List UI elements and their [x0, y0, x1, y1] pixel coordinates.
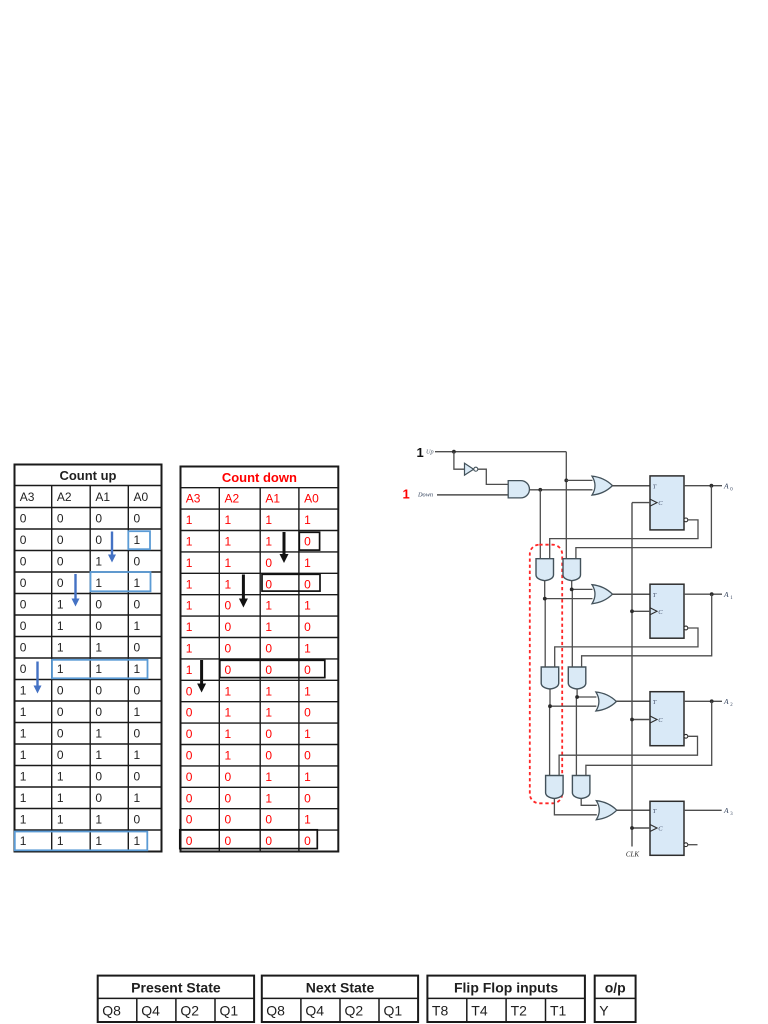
svg-text:0: 0: [134, 770, 141, 784]
junction P2 output: [575, 695, 579, 699]
svg-text:1: 1: [20, 748, 27, 762]
svg-text:1: 1: [20, 770, 27, 784]
wire FF2 Q output: [684, 700, 722, 702]
svg-text:1: 1: [265, 684, 272, 698]
wire inverter output to AND gate: [478, 469, 508, 484]
svg-text:2: 2: [730, 703, 733, 708]
wire CLK vertical: [631, 503, 633, 847]
wire D2 output chain: [549, 689, 551, 776]
svg-text:1: 1: [304, 684, 311, 698]
svg-text:T: T: [653, 808, 657, 815]
svg-text:0: 0: [225, 620, 232, 634]
svg-text:0: 0: [265, 663, 272, 677]
AND gate D2 (down chain, stage 2): [541, 667, 559, 689]
svg-text:3: 3: [730, 812, 733, 817]
wire O3 to FF2 T: [616, 700, 650, 702]
svg-text:1: 1: [134, 662, 141, 676]
svg-text:C: C: [658, 826, 663, 833]
OR gate O2 (T input A1): [592, 585, 613, 604]
AND gate D3 (down chain, stage 3): [546, 776, 564, 799]
svg-text:1: 1: [20, 834, 27, 848]
junction CLK FF1: [630, 609, 634, 613]
wire O1 to FF0 T: [612, 485, 650, 487]
svg-text:0: 0: [265, 834, 272, 848]
wire Up input horizontal: [435, 451, 566, 453]
wire O4 to FF3 T: [617, 809, 650, 811]
svg-text:CLK: CLK: [626, 851, 640, 859]
svg-text:0: 0: [225, 599, 232, 613]
svg-text:0: 0: [265, 642, 272, 656]
svg-text:0: 0: [95, 770, 102, 784]
svg-text:1: 1: [403, 487, 410, 502]
svg-text:0: 0: [186, 791, 193, 805]
svg-text:1: 1: [225, 684, 232, 698]
wire P2 to OR O3 top input: [577, 696, 596, 698]
AND gate P2 (up chain, stage 2): [568, 667, 586, 689]
svg-text:0: 0: [730, 487, 733, 492]
count up highlight box row0011 A1-A0: [91, 572, 151, 591]
svg-text:1: 1: [186, 642, 193, 656]
svg-text:0: 0: [57, 727, 64, 741]
wire P2 output chain: [575, 689, 578, 776]
svg-text:0: 0: [134, 598, 141, 612]
svg-text:Down: Down: [417, 492, 433, 499]
svg-text:0: 0: [134, 684, 141, 698]
wire Up to OR O1 top input: [566, 479, 592, 481]
svg-text:1: 1: [57, 598, 64, 612]
svg-text:1: 1: [265, 791, 272, 805]
svg-text:1: 1: [304, 642, 311, 656]
svg-text:1: 1: [134, 791, 141, 805]
svg-text:1: 1: [57, 834, 64, 848]
svg-text:0: 0: [20, 576, 27, 590]
svg-text:1: 1: [225, 535, 232, 549]
svg-text:A3: A3: [186, 492, 201, 506]
inverter (Up complement): [465, 463, 478, 475]
svg-text:0: 0: [186, 813, 193, 827]
svg-text:A1: A1: [95, 490, 110, 504]
svg-text:0: 0: [265, 813, 272, 827]
svg-text:0: 0: [57, 684, 64, 698]
svg-text:1: 1: [265, 620, 272, 634]
svg-text:0: 0: [20, 512, 27, 526]
svg-text:1: 1: [134, 533, 141, 547]
svg-text:Q1: Q1: [220, 1002, 239, 1018]
svg-text:1: 1: [95, 576, 102, 590]
svg-text:0: 0: [95, 598, 102, 612]
svg-text:0: 0: [225, 813, 232, 827]
svg-text:1: 1: [20, 791, 27, 805]
svg-text:A0: A0: [134, 490, 149, 504]
wire P1 output chain: [571, 580, 574, 667]
svg-text:0: 0: [95, 512, 102, 526]
junction Up to inverter: [452, 450, 456, 454]
svg-text:1: 1: [265, 706, 272, 720]
wire D3 output to OR O4 bottom: [554, 799, 596, 815]
wire CLK to FF0 C: [632, 502, 650, 504]
svg-text:Next State: Next State: [306, 979, 375, 995]
AND gate P3 (up chain, stage 3): [572, 776, 590, 799]
svg-text:1: 1: [95, 727, 102, 741]
svg-text:A0: A0: [304, 492, 319, 506]
svg-text:C: C: [658, 609, 663, 616]
svg-text:0: 0: [304, 706, 311, 720]
count down highlight box row0000: [180, 830, 317, 849]
svg-text:o/p: o/p: [605, 979, 626, 995]
svg-text:1: 1: [57, 619, 64, 633]
AND gate D1 (down chain, stage 1): [536, 559, 554, 581]
svg-text:A: A: [723, 806, 729, 815]
svg-text:0: 0: [57, 748, 64, 762]
svg-text:Q8: Q8: [102, 1002, 121, 1018]
svg-text:1: 1: [20, 684, 27, 698]
svg-text:Flip Flop inputs: Flip Flop inputs: [454, 979, 558, 995]
svg-text:1: 1: [95, 662, 102, 676]
svg-text:1: 1: [134, 834, 141, 848]
svg-text:T8: T8: [432, 1002, 449, 1018]
svg-text:T: T: [653, 483, 657, 490]
junction D2 output: [548, 704, 552, 708]
wire FF3 Qbar stub: [688, 844, 698, 846]
svg-text:T2: T2: [511, 1002, 528, 1018]
count down arrow 3: [197, 660, 206, 693]
svg-text:Q2: Q2: [180, 1002, 199, 1018]
bottom table: output: [595, 976, 636, 1022]
svg-text:1: 1: [225, 577, 232, 591]
svg-text:1: 1: [20, 813, 27, 827]
svg-text:0: 0: [265, 727, 272, 741]
svg-text:Up: Up: [426, 449, 434, 456]
wire CLK to FF2 C: [632, 719, 650, 721]
count down arrow 2: [239, 575, 248, 608]
svg-text:1: 1: [20, 705, 27, 719]
svg-text:T4: T4: [471, 1002, 488, 1018]
wire CLK to FF1 C: [632, 610, 650, 612]
count down arrow 1: [280, 532, 289, 563]
svg-text:0: 0: [186, 770, 193, 784]
svg-text:0: 0: [57, 512, 64, 526]
svg-text:1: 1: [225, 513, 232, 527]
wire O2 to FF1 T: [612, 593, 650, 595]
svg-text:0: 0: [20, 619, 27, 633]
svg-text:0: 0: [20, 555, 27, 569]
svg-text:0: 0: [225, 642, 232, 656]
wire D1 output chain: [544, 580, 547, 667]
svg-text:0: 0: [186, 727, 193, 741]
bottom table: Flip Flop inputs: [427, 976, 585, 1022]
wire A2 complement feedback to down-chain AND: [559, 736, 697, 775]
svg-text:1: 1: [304, 727, 311, 741]
junction A2 output: [710, 699, 714, 703]
svg-text:0: 0: [304, 749, 311, 763]
AND gate U1 (Up&#39;&#183;Down): [508, 481, 529, 498]
svg-text:Present State: Present State: [131, 979, 221, 995]
svg-text:C: C: [658, 500, 663, 507]
svg-text:0: 0: [95, 533, 102, 547]
wire A2 feedback to up-chain AND: [586, 701, 712, 775]
svg-text:A1: A1: [265, 492, 280, 506]
svg-text:0: 0: [134, 641, 141, 655]
svg-text:0: 0: [304, 791, 311, 805]
svg-text:0: 0: [20, 598, 27, 612]
wire A1 feedback to up-chain AND: [582, 594, 712, 667]
svg-text:1: 1: [95, 834, 102, 848]
svg-text:1: 1: [186, 599, 193, 613]
T flip-flop FF3: [650, 801, 688, 855]
svg-text:A: A: [723, 697, 729, 706]
svg-text:T1: T1: [550, 1002, 567, 1018]
count down highlight box row1000 A2-A0: [220, 660, 325, 677]
svg-text:1: 1: [417, 445, 424, 460]
svg-text:1: 1: [57, 770, 64, 784]
bottom table: Next State: [262, 976, 418, 1022]
svg-text:A: A: [723, 590, 729, 599]
T flip-flop FF2: [650, 692, 688, 746]
svg-text:0: 0: [57, 555, 64, 569]
svg-text:A2: A2: [57, 490, 72, 504]
svg-text:1: 1: [730, 596, 733, 601]
svg-text:0: 0: [225, 770, 232, 784]
wire down-chain U1 to AND D1: [539, 490, 541, 559]
wire P3 output to OR O4 top: [581, 799, 597, 806]
svg-text:Q8: Q8: [266, 1002, 285, 1018]
svg-text:0: 0: [95, 705, 102, 719]
wire D1 to OR O2 bottom input: [545, 598, 593, 600]
svg-text:A3: A3: [20, 490, 35, 504]
svg-text:0: 0: [186, 706, 193, 720]
svg-text:0: 0: [134, 555, 141, 569]
count up table grid: [15, 465, 162, 852]
count down table grid: [181, 467, 339, 852]
count up arrow 1: [108, 532, 116, 563]
count up arrow 3: [34, 662, 42, 694]
svg-text:1: 1: [265, 599, 272, 613]
junction A0 output: [710, 484, 714, 488]
svg-text:0: 0: [95, 684, 102, 698]
svg-text:1: 1: [134, 705, 141, 719]
svg-text:0: 0: [304, 620, 311, 634]
OR gate O3 (T input A2): [596, 692, 617, 711]
svg-text:Q4: Q4: [305, 1002, 324, 1018]
svg-text:0: 0: [95, 619, 102, 633]
svg-text:1: 1: [186, 663, 193, 677]
svg-text:Y: Y: [599, 1002, 609, 1018]
svg-text:0: 0: [186, 749, 193, 763]
count up arrow 2: [72, 574, 80, 607]
svg-text:0: 0: [134, 727, 141, 741]
svg-text:0: 0: [57, 533, 64, 547]
wire FF1 Q output: [684, 593, 722, 595]
svg-text:1: 1: [304, 599, 311, 613]
count up highlight box row1111: [15, 832, 148, 851]
svg-text:0: 0: [186, 834, 193, 848]
svg-text:1: 1: [20, 727, 27, 741]
svg-text:1: 1: [95, 555, 102, 569]
svg-text:1: 1: [57, 662, 64, 676]
svg-text:0: 0: [20, 533, 27, 547]
svg-text:0: 0: [265, 577, 272, 591]
red dashed group (down-chain AND gates): [530, 545, 562, 804]
svg-text:0: 0: [20, 662, 27, 676]
svg-text:1: 1: [225, 727, 232, 741]
count up highlight box row0111 A2-A0: [52, 660, 148, 679]
svg-text:0: 0: [304, 535, 311, 549]
junction CLK FF3: [630, 826, 634, 830]
svg-text:1: 1: [95, 748, 102, 762]
svg-text:Q2: Q2: [345, 1002, 364, 1018]
svg-text:0: 0: [265, 556, 272, 570]
svg-text:0: 0: [57, 576, 64, 590]
svg-text:0: 0: [304, 577, 311, 591]
svg-text:1: 1: [134, 619, 141, 633]
svg-text:T: T: [653, 592, 657, 599]
svg-text:1: 1: [265, 513, 272, 527]
svg-text:1: 1: [57, 791, 64, 805]
svg-text:Count up: Count up: [59, 468, 116, 483]
svg-text:1: 1: [95, 641, 102, 655]
svg-text:1: 1: [186, 577, 193, 591]
wire FF3 Q output: [684, 809, 722, 811]
svg-text:1: 1: [225, 556, 232, 570]
svg-text:0: 0: [265, 749, 272, 763]
svg-text:1: 1: [186, 556, 193, 570]
svg-text:1: 1: [265, 535, 272, 549]
junction A1 output: [710, 592, 714, 596]
svg-text:0: 0: [95, 791, 102, 805]
junction P1 output: [570, 588, 574, 592]
OR gate O1 (T input A0): [592, 476, 613, 495]
svg-text:A2: A2: [225, 492, 240, 506]
svg-text:1: 1: [304, 513, 311, 527]
junction U1 output down-chain: [538, 488, 542, 492]
svg-text:A: A: [723, 481, 729, 490]
svg-text:1: 1: [186, 620, 193, 634]
wire U1 output to OR gate O1: [529, 489, 592, 491]
wire D2 to OR O3 bottom input: [550, 705, 596, 707]
svg-text:Count down: Count down: [222, 470, 297, 485]
svg-text:0: 0: [134, 512, 141, 526]
svg-text:1: 1: [265, 770, 272, 784]
svg-text:0: 0: [225, 663, 232, 677]
wire FF0 Q output: [684, 485, 722, 487]
svg-text:1: 1: [186, 513, 193, 527]
svg-text:1: 1: [225, 706, 232, 720]
svg-text:1: 1: [304, 770, 311, 784]
junction Up to OR O1: [564, 479, 568, 483]
svg-text:1: 1: [225, 749, 232, 763]
wire A0 complement feedback to down-chain AND: [550, 520, 698, 558]
svg-text:T: T: [653, 699, 657, 706]
svg-text:0: 0: [225, 834, 232, 848]
wire P1 to OR O2 top input: [572, 588, 593, 590]
wire Up vertical to AND P1: [565, 452, 567, 559]
svg-text:1: 1: [57, 813, 64, 827]
count down highlight box row1100 A1-A0: [262, 574, 320, 591]
svg-text:0: 0: [134, 813, 141, 827]
svg-text:1: 1: [57, 641, 64, 655]
bottom table: Present State: [98, 976, 254, 1022]
svg-text:0: 0: [20, 641, 27, 655]
OR gate O4 (T input A3): [596, 801, 617, 820]
svg-text:1: 1: [134, 748, 141, 762]
junction D1 output: [543, 597, 547, 601]
svg-text:0: 0: [304, 663, 311, 677]
T flip-flop FF1: [650, 584, 688, 638]
T flip-flop FF0: [650, 476, 688, 530]
svg-text:1: 1: [95, 813, 102, 827]
svg-text:0: 0: [225, 791, 232, 805]
svg-text:C: C: [658, 717, 663, 724]
wire Up down to inverter: [454, 452, 464, 470]
wire A1 complement feedback to down-chain AND: [555, 628, 698, 667]
svg-text:0: 0: [304, 834, 311, 848]
junction CLK FF2: [630, 718, 634, 722]
svg-text:0: 0: [186, 684, 193, 698]
svg-text:0: 0: [57, 705, 64, 719]
count up highlight box row0001 A0: [128, 531, 150, 549]
svg-text:1: 1: [134, 576, 141, 590]
svg-text:Q1: Q1: [384, 1002, 403, 1018]
AND gate P1 (up chain, stage 1): [563, 559, 581, 581]
svg-text:1: 1: [304, 556, 311, 570]
count down highlight box row1110 A0: [299, 532, 319, 550]
svg-text:Q4: Q4: [141, 1002, 160, 1018]
wire CLK to FF3 C: [632, 827, 650, 829]
wire A0 feedback to up-chain AND: [576, 486, 712, 559]
svg-text:1: 1: [304, 813, 311, 827]
wire Down input: [437, 494, 508, 496]
svg-text:1: 1: [186, 535, 193, 549]
